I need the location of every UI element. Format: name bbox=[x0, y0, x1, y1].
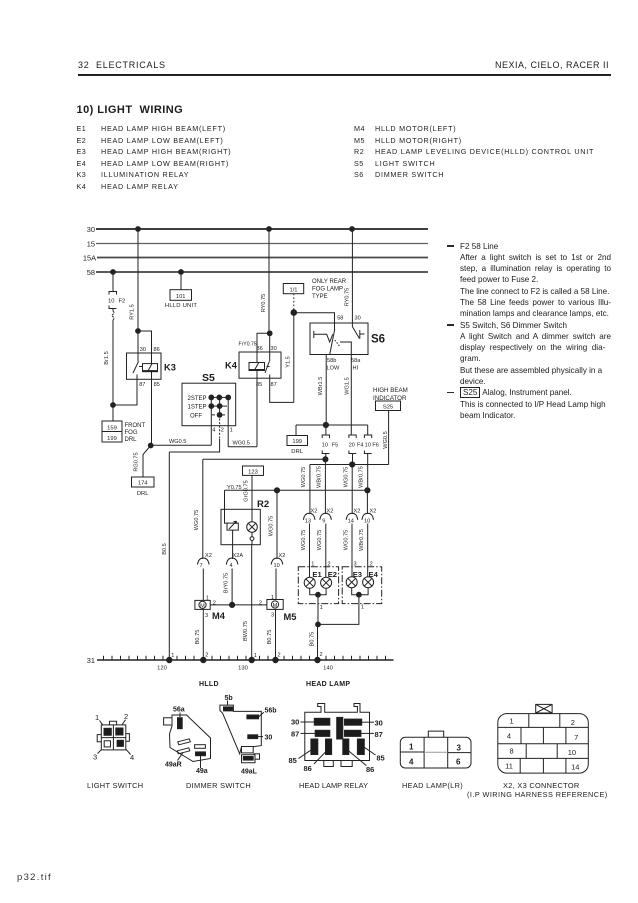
svg-text:E1: E1 bbox=[312, 570, 322, 579]
wire B0.75 lamps to ground bus bbox=[309, 624, 317, 660]
svg-text:HI: HI bbox=[353, 366, 359, 372]
wire WBr0.75 F5 down to X2 arc (E2 feed) bbox=[317, 459, 326, 514]
svg-text:4: 4 bbox=[212, 428, 215, 434]
svg-text:DRL: DRL bbox=[291, 449, 304, 455]
svg-text:1/1: 1/1 bbox=[289, 287, 297, 293]
svg-text:30: 30 bbox=[140, 347, 146, 353]
svg-text:RY0.75: RY0.75 bbox=[261, 294, 267, 313]
terminal box 199 DRL bbox=[287, 436, 308, 456]
svg-text:14: 14 bbox=[348, 519, 354, 525]
bus 15 bbox=[87, 240, 428, 249]
connector X2 pin 7 (M4 feed) bbox=[198, 553, 212, 600]
svg-text:DRL: DRL bbox=[125, 437, 138, 443]
svg-text:10: 10 bbox=[365, 442, 371, 448]
svg-text:8: 8 bbox=[510, 747, 514, 756]
wire down to DRL 199 box bbox=[295, 425, 297, 436]
wire K3 85 down to WG0.5 node bbox=[151, 379, 153, 445]
wire GrG0.75 from 123 into R2 lamp bbox=[244, 475, 252, 521]
wire WG0.75 F4 down to X2 arc (E3 feed) bbox=[343, 465, 352, 515]
ground bus 31 bbox=[87, 656, 394, 672]
svg-text:M: M bbox=[200, 603, 205, 609]
svg-text:140: 140 bbox=[323, 666, 333, 672]
svg-text:Y0.75: Y0.75 bbox=[227, 485, 242, 491]
svg-text:30: 30 bbox=[355, 316, 361, 322]
node above K4 bbox=[267, 331, 272, 336]
svg-text:DRL: DRL bbox=[137, 491, 150, 497]
svg-text:86: 86 bbox=[154, 347, 160, 353]
svg-text:HLLD UNIT: HLLD UNIT bbox=[165, 303, 197, 309]
svg-text:HIGH BEAM: HIGH BEAM bbox=[373, 387, 408, 394]
wire S5 pin2 down and left to ground lead bbox=[169, 439, 219, 452]
node joining 1/1, Y1.5 and S6 58 bbox=[291, 310, 297, 316]
node on bus 58 feeding fuse F2 bbox=[111, 270, 116, 275]
svg-text:M: M bbox=[273, 603, 278, 609]
svg-text:1: 1 bbox=[361, 605, 364, 611]
svg-text:87: 87 bbox=[375, 730, 383, 739]
svg-text:WG0.75: WG0.75 bbox=[194, 510, 200, 531]
svg-text:10: 10 bbox=[274, 563, 280, 569]
wire B0.5 ground lead from S5 pin2 to bus 31 bbox=[162, 452, 170, 660]
head lamp LR connector view bbox=[400, 731, 471, 768]
wire E1/E2 commons joined bbox=[310, 588, 326, 594]
legend right column descriptions bbox=[375, 123, 594, 181]
connector box 1/1 (rear fog option) bbox=[283, 284, 303, 294]
svg-text:6: 6 bbox=[456, 758, 461, 767]
svg-text:F4: F4 bbox=[357, 442, 363, 448]
wire K3 87 elbow bbox=[113, 379, 137, 405]
wire WG0.5 up to high beam indicator S25 bbox=[383, 411, 389, 465]
node joining F2 wire and K3 pin 87 bbox=[111, 403, 116, 408]
svg-text:WG0.5: WG0.5 bbox=[169, 439, 186, 445]
svg-text:BrY0.75: BrY0.75 bbox=[223, 573, 229, 593]
bus 30 bbox=[87, 225, 428, 234]
node on bus 58 feeding HLLD unit bbox=[179, 270, 184, 275]
bus 15A bbox=[83, 254, 428, 263]
wire branch to K3 pin 86 bbox=[138, 331, 152, 353]
svg-text:F6: F6 bbox=[372, 442, 378, 448]
svg-text:4: 4 bbox=[409, 757, 414, 766]
svg-text:87: 87 bbox=[271, 382, 277, 388]
svg-text:WBr1.5: WBr1.5 bbox=[318, 377, 324, 396]
connector X2A pin 4 (R2 to M4/M5) bbox=[226, 553, 243, 605]
svg-text:1: 1 bbox=[254, 653, 257, 659]
wire Y1.5 bbox=[286, 313, 294, 403]
wire into K4 pin 30 bbox=[269, 333, 271, 352]
svg-text:3: 3 bbox=[271, 613, 274, 619]
node on bus 30 feeding dimmer switch S6 bbox=[350, 227, 355, 232]
wire WG0.75 to lamp E1 bbox=[301, 524, 310, 578]
svg-text:7: 7 bbox=[200, 563, 203, 569]
svg-text:1: 1 bbox=[311, 562, 314, 568]
svg-text:10: 10 bbox=[364, 519, 370, 525]
svg-text:86: 86 bbox=[304, 764, 312, 773]
terminal box 174 DRL bbox=[132, 477, 155, 497]
svg-text:OFF: OFF bbox=[190, 413, 202, 419]
svg-text:49a: 49a bbox=[196, 768, 208, 775]
wire 58b distribution line bbox=[296, 424, 368, 426]
connector X2 pin 13 (E1 feed) bbox=[303, 509, 317, 525]
svg-text:FOG LAMP: FOG LAMP bbox=[312, 287, 343, 293]
node E3/E4 common bbox=[357, 592, 362, 597]
wire F5 line to HLLD left bbox=[203, 458, 326, 460]
svg-text:RY1.5: RY1.5 bbox=[130, 304, 136, 319]
svg-text:WBr0.75: WBr0.75 bbox=[317, 466, 323, 488]
svg-text:Y1.5: Y1.5 bbox=[286, 356, 292, 368]
wire high-beam line F4 bbox=[310, 464, 389, 466]
bus node M5 ground, pin 2 bbox=[273, 653, 281, 663]
svg-text:4: 4 bbox=[230, 563, 233, 569]
svg-text:WBr0.75: WBr0.75 bbox=[359, 529, 365, 551]
file name caption bbox=[17, 872, 52, 883]
svg-text:GrG0.75: GrG0.75 bbox=[244, 480, 250, 501]
legend right column codes bbox=[354, 123, 365, 181]
HLLD motor M5 bbox=[259, 595, 297, 622]
page header left: 32 ELECTRICALS bbox=[78, 60, 166, 70]
node on bus 30 feeding relay K4 bbox=[267, 227, 272, 232]
svg-text:58: 58 bbox=[87, 268, 95, 277]
head lamp relay connector view bbox=[289, 704, 385, 775]
svg-text:TYPE: TYPE bbox=[312, 294, 328, 300]
svg-text:1: 1 bbox=[510, 716, 514, 725]
svg-text:WBr0.75: WBr0.75 bbox=[358, 466, 364, 488]
wire low-beam/HLLD line F6 bbox=[225, 489, 368, 491]
svg-text:30: 30 bbox=[271, 346, 277, 352]
svg-text:1: 1 bbox=[320, 605, 323, 611]
svg-text:85: 85 bbox=[154, 382, 160, 388]
svg-text:49aL: 49aL bbox=[241, 768, 258, 775]
svg-text:1: 1 bbox=[230, 428, 233, 434]
light switch S5 bbox=[182, 372, 236, 439]
svg-text:87: 87 bbox=[139, 382, 145, 388]
svg-text:LOW: LOW bbox=[327, 366, 340, 372]
svg-text:7: 7 bbox=[574, 733, 578, 742]
svg-text:1: 1 bbox=[271, 595, 274, 601]
svg-text:11: 11 bbox=[505, 761, 513, 770]
svg-text:K4: K4 bbox=[225, 361, 238, 371]
terminal box 101 HLLD UNIT bbox=[165, 290, 197, 309]
light switch connector view bbox=[93, 712, 134, 762]
wire into fuse F5 bbox=[325, 425, 327, 435]
relay K4 bbox=[225, 346, 281, 388]
svg-text:87: 87 bbox=[291, 730, 299, 739]
head lamp unit E3/E4 dash-dot box bbox=[342, 567, 382, 604]
svg-text:B0.5: B0.5 bbox=[162, 543, 168, 555]
svg-text:123: 123 bbox=[248, 469, 258, 475]
svg-text:86: 86 bbox=[257, 346, 263, 352]
bus node R2 ground, pin 1 bbox=[249, 653, 257, 663]
bus 58 bbox=[87, 268, 428, 277]
wire RY0.75 bus30 to K4 bbox=[261, 229, 269, 333]
svg-text:M4: M4 bbox=[212, 611, 226, 621]
svg-text:13: 13 bbox=[305, 519, 311, 525]
wire WBr0.75 F6 down to X2 arc (E4 feed) bbox=[358, 466, 367, 514]
page header right: NEXIA, CIELO, RACER II bbox=[495, 60, 609, 70]
wire S5 pin4 down bbox=[210, 426, 212, 446]
fuse F2 bbox=[108, 292, 125, 321]
svg-text:2: 2 bbox=[213, 601, 216, 607]
bus node S5 ground, pin 1 bbox=[167, 653, 175, 663]
svg-text:WG0.5: WG0.5 bbox=[383, 431, 389, 448]
svg-text:1: 1 bbox=[409, 743, 414, 752]
svg-text:WG0.5: WG0.5 bbox=[233, 440, 250, 446]
fuse F4 bbox=[349, 435, 364, 465]
svg-text:15A: 15A bbox=[83, 254, 96, 263]
fuse F6 bbox=[364, 435, 378, 490]
svg-text:130: 130 bbox=[238, 666, 248, 672]
svg-text:FRONT: FRONT bbox=[125, 423, 146, 429]
wire into fuse F6 bbox=[367, 425, 369, 435]
dimmer switch connector 49aR bbox=[164, 707, 211, 775]
node joining K3 85 and DRL 174 branch bbox=[148, 443, 153, 448]
svg-text:1STEP: 1STEP bbox=[188, 405, 207, 411]
svg-text:RG0.75: RG0.75 bbox=[134, 452, 140, 471]
wire node to S6 pin 58 bbox=[294, 313, 335, 323]
lamp E3 head lamp high beam right bbox=[346, 562, 362, 588]
connector X2 pin 10 (M5 feed) bbox=[271, 553, 285, 600]
svg-text:85: 85 bbox=[376, 753, 384, 762]
wire down to front fog boxes bbox=[112, 405, 114, 421]
wire B0.75 M4 ground bbox=[195, 609, 203, 660]
svg-text:199: 199 bbox=[107, 436, 117, 442]
svg-text:58b: 58b bbox=[327, 358, 336, 364]
node E1/E2 common bbox=[316, 592, 321, 597]
wire 58 to HLLD unit bbox=[180, 272, 182, 290]
svg-text:10: 10 bbox=[108, 299, 114, 305]
node on bus 30 feeding relay K3 bbox=[136, 227, 141, 232]
legend left column codes bbox=[77, 123, 87, 192]
svg-text:WG1.5: WG1.5 bbox=[345, 377, 351, 394]
bus node M4 ground, pin 2 bbox=[201, 653, 209, 663]
svg-text:31: 31 bbox=[87, 656, 95, 665]
wire K4 87 elbow to Y1.5 bbox=[270, 378, 294, 402]
svg-text:58: 58 bbox=[337, 316, 343, 322]
svg-text:WG0.75: WG0.75 bbox=[317, 530, 323, 551]
svg-text:2: 2 bbox=[328, 562, 331, 568]
wire WBr1.5 S6 LOW down bbox=[318, 355, 326, 426]
node above K3 bbox=[136, 329, 141, 334]
svg-text:3: 3 bbox=[457, 743, 462, 752]
connector X2 pin 9 (E2 feed) bbox=[320, 509, 334, 525]
svg-text:3: 3 bbox=[205, 613, 208, 619]
svg-text:F2: F2 bbox=[119, 299, 126, 305]
note ONLY REAR FOG LAMP TYPE bbox=[312, 279, 347, 300]
svg-text:101: 101 bbox=[176, 294, 186, 300]
svg-text:174: 174 bbox=[138, 481, 148, 487]
svg-text:WG0.75: WG0.75 bbox=[301, 467, 307, 488]
svg-text:15: 15 bbox=[87, 240, 95, 249]
lamp E1 head lamp high beam left bbox=[304, 562, 322, 589]
svg-text:159: 159 bbox=[107, 425, 117, 431]
wire E1/E2 ground drop pin 1 bbox=[318, 595, 323, 625]
header rule bbox=[78, 74, 611, 76]
terminal box S25 high beam indicator bbox=[373, 387, 408, 411]
svg-text:30: 30 bbox=[375, 718, 383, 727]
wire S5 pin1 down bbox=[227, 426, 229, 447]
svg-text:WG0.75: WG0.75 bbox=[269, 516, 275, 537]
svg-text:R2: R2 bbox=[257, 499, 269, 510]
svg-text:49aR: 49aR bbox=[165, 762, 182, 769]
wire M4 pin2 to M5 pin2 bbox=[210, 604, 267, 606]
wire WG0.75 to lamp E2 bbox=[317, 524, 326, 578]
svg-text:2: 2 bbox=[205, 653, 208, 659]
wire WBr0.75 to lamp E4 bbox=[359, 524, 368, 577]
svg-text:F5: F5 bbox=[332, 442, 338, 448]
section title bbox=[77, 104, 184, 116]
svg-text:1: 1 bbox=[171, 653, 174, 659]
wire WG0.5 S5 pin1 to K4-85 bbox=[228, 440, 257, 447]
wire RY0.75 bus30 to S6 pin 30 bbox=[345, 229, 353, 323]
node feeding M5 bbox=[274, 488, 279, 493]
svg-text:2: 2 bbox=[370, 562, 373, 568]
svg-text:RY0.75: RY0.75 bbox=[345, 288, 351, 307]
svg-text:E4: E4 bbox=[369, 570, 379, 579]
svg-text:X2: X2 bbox=[205, 553, 212, 559]
svg-text:B0.75: B0.75 bbox=[267, 630, 273, 645]
bus node lamps ground, pin 2 bbox=[315, 652, 323, 663]
svg-text:58a: 58a bbox=[351, 358, 361, 364]
legend left column descriptions bbox=[101, 123, 231, 192]
svg-text:2STEP: 2STEP bbox=[188, 396, 207, 402]
wire into K3 pin 30 bbox=[137, 331, 139, 353]
wire Br1.5 from F2 down bbox=[104, 320, 113, 405]
svg-text:S6: S6 bbox=[371, 334, 385, 346]
wire Y0.75 into R2 bbox=[225, 485, 242, 509]
right-side notes bbox=[446, 241, 611, 422]
dimmer switch connector 49aL bbox=[220, 695, 277, 776]
wire 58 to F2 bbox=[112, 272, 114, 292]
svg-text:FrY0.75: FrY0.75 bbox=[239, 342, 257, 348]
svg-text:86: 86 bbox=[366, 765, 374, 774]
svg-text:S5: S5 bbox=[202, 372, 215, 384]
svg-text:14: 14 bbox=[571, 763, 579, 772]
dotted wire 1/1 to node bbox=[293, 294, 295, 313]
wire WG1.5 S6 HI down to fuse F4 bbox=[345, 355, 352, 436]
svg-text:WG0.75: WG0.75 bbox=[301, 530, 307, 551]
svg-text:B0.75: B0.75 bbox=[309, 632, 315, 647]
svg-text:5b: 5b bbox=[225, 695, 233, 702]
svg-text:30: 30 bbox=[265, 735, 273, 742]
head lamp unit E1/E2 dash-dot box bbox=[298, 567, 338, 604]
fuse F5 bbox=[322, 435, 338, 459]
svg-text:S25: S25 bbox=[383, 405, 393, 411]
wire WG0.75 down to X2 arc (M5 feed) bbox=[269, 490, 278, 559]
svg-text:9: 9 bbox=[322, 519, 325, 525]
svg-text:120: 120 bbox=[157, 666, 167, 672]
wire RG0.75 down to DRL 174 bbox=[134, 446, 151, 478]
svg-text:3: 3 bbox=[93, 753, 97, 762]
svg-text:10: 10 bbox=[568, 748, 576, 757]
svg-text:2: 2 bbox=[571, 718, 575, 727]
wire B0.75 M5 ground bbox=[267, 609, 276, 660]
svg-text:WG0.75: WG0.75 bbox=[343, 530, 349, 551]
terminal box 123 bbox=[243, 466, 264, 475]
wire E3/E4 commons joined bbox=[352, 588, 368, 595]
wire branch FrY0.75 to K4 pin 86 bbox=[239, 333, 270, 352]
terminal boxes 159/199 FRONT FOG DRL bbox=[102, 421, 145, 443]
svg-text:20: 20 bbox=[349, 442, 355, 448]
svg-text:199: 199 bbox=[292, 439, 302, 445]
wire E3/E4 ground drop pin 1 bbox=[318, 595, 364, 625]
svg-text:2: 2 bbox=[278, 653, 281, 659]
svg-text:85: 85 bbox=[289, 756, 297, 765]
node under F5 bbox=[323, 457, 328, 462]
node under S6 LOW feeding fuses bbox=[323, 422, 328, 427]
dimmer switch S6 bbox=[310, 316, 385, 372]
wire BrY0.75 R2 to X2A arc bbox=[223, 545, 232, 593]
svg-text:30: 30 bbox=[87, 225, 95, 234]
node joined lamp grounds bbox=[316, 622, 321, 627]
svg-text:ONLY REAR: ONLY REAR bbox=[312, 279, 347, 285]
svg-text:2: 2 bbox=[221, 428, 224, 434]
node X2A wire joins motor link bbox=[230, 602, 235, 607]
X2 X3 connector view bbox=[498, 704, 589, 773]
svg-text:BW0.75: BW0.75 bbox=[243, 621, 249, 641]
relay K3 bbox=[127, 347, 176, 388]
svg-text:B0.75: B0.75 bbox=[195, 630, 201, 645]
svg-text:2: 2 bbox=[259, 601, 262, 607]
node under F6 bbox=[365, 488, 370, 493]
wire BW0.75 R2 lamp to ground bus bbox=[243, 545, 252, 660]
svg-text:FOG: FOG bbox=[125, 430, 138, 436]
lamp E2 head lamp low beam left bbox=[321, 562, 337, 589]
HLLD motor M4 bbox=[195, 596, 226, 622]
wire K4 85 down to WG0.5 line bbox=[256, 378, 258, 447]
wire WG0.75 down to X2 arc (M4 feed) bbox=[194, 459, 203, 559]
connector X2 pin 10 (E4 feed) bbox=[362, 509, 376, 525]
lamp E4 head lamp low beam right bbox=[363, 562, 379, 588]
svg-text:M5: M5 bbox=[284, 612, 297, 622]
svg-text:1: 1 bbox=[95, 713, 99, 722]
svg-text:4: 4 bbox=[507, 732, 511, 741]
connector X2 pin 14 (E3 feed) bbox=[346, 509, 360, 525]
svg-text:WG0.75: WG0.75 bbox=[343, 467, 349, 488]
svg-text:Br1.5: Br1.5 bbox=[104, 351, 110, 364]
svg-text:3: 3 bbox=[354, 562, 357, 568]
svg-text:56b: 56b bbox=[265, 708, 277, 715]
wire RY1.5 bus30 to K3 bbox=[130, 229, 139, 331]
svg-text:56a: 56a bbox=[173, 707, 185, 714]
wire WG0.75 to lamp E3 bbox=[343, 524, 352, 577]
svg-text:2: 2 bbox=[124, 712, 128, 721]
svg-text:10: 10 bbox=[322, 442, 328, 448]
wire WG0.5 K3-85 to S5 pin4 bbox=[151, 439, 212, 446]
wire WG0.75 down to X2 arc (E1 feed) bbox=[301, 465, 310, 515]
node under F4 bbox=[350, 462, 355, 467]
svg-text:30: 30 bbox=[291, 718, 299, 727]
svg-text:2: 2 bbox=[320, 652, 323, 658]
svg-text:K3: K3 bbox=[164, 363, 176, 373]
bottom connector captions bbox=[199, 681, 219, 688]
HLLD control unit R2 bbox=[221, 499, 269, 545]
